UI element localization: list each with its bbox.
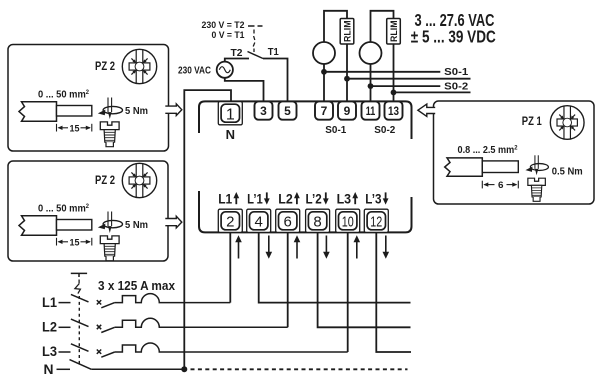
wire N dashed: [191, 368, 408, 370]
cable conductor (lower): [57, 220, 92, 231]
svg-text:L3: L3: [42, 344, 57, 359]
svg-text:5: 5: [284, 104, 291, 118]
svg-text:7: 7: [321, 104, 328, 118]
terminal 5: [279, 101, 297, 119]
wire S0-2 line b: [394, 91, 471, 93]
svg-text:6: 6: [284, 214, 292, 231]
svg-text:± 5 ... 39 VDC: ± 5 ... 39 VDC: [411, 26, 496, 46]
svg-text:N: N: [44, 362, 54, 377]
node S0-1 plus: [321, 69, 327, 75]
svg-text:L’1: L’1: [247, 192, 263, 207]
svg-text:9: 9: [344, 104, 351, 118]
svg-text:15: 15: [70, 237, 81, 248]
svg-text:6: 6: [498, 180, 504, 191]
terminal 13: [385, 101, 403, 119]
arrow up under terminal 6: [294, 235, 301, 258]
svg-text:0.8 ... 2.5 mm2: 0.8 ... 2.5 mm2: [458, 144, 518, 156]
svg-text:PZ 2: PZ 2: [95, 175, 115, 187]
S0 lamp circle 2: [360, 42, 382, 64]
svg-text:3: 3: [260, 104, 267, 118]
wire S0-1 line a: [324, 71, 440, 73]
svg-text:L1: L1: [42, 295, 57, 310]
arrow down under terminal 4: [266, 236, 273, 259]
breaker linkage zigzag: [75, 280, 81, 294]
svg-text:L2: L2: [42, 320, 57, 335]
meter body bottom outline: [199, 191, 412, 232]
switch N: [57, 360, 185, 370]
svg-text:5 Nm: 5 Nm: [125, 219, 148, 231]
wire S0-2 line a: [371, 85, 441, 87]
torque screwdriver 0.5Nm: [525, 155, 548, 175]
terminal 2: [218, 209, 242, 232]
wire RLIM2 to terminal 13: [393, 44, 395, 101]
svg-text:12: 12: [370, 214, 382, 231]
svg-text:0 V = T1: 0 V = T1: [212, 30, 246, 41]
terminal 12: [364, 209, 388, 232]
svg-text:L2: L2: [278, 192, 293, 207]
terminal 7: [315, 101, 333, 119]
wire AC top to T2 contact: [225, 59, 249, 62]
torque screwdriver 5Nm (lower): [98, 212, 123, 234]
arrow from PZ1 box to meter: [418, 104, 435, 116]
node S0-1 minus: [344, 76, 350, 82]
svg-text:RLIM: RLIM: [343, 20, 354, 42]
svg-text:T2: T2: [231, 48, 243, 59]
node S0-2 minus: [391, 90, 397, 96]
wire S0-1 line b: [347, 78, 471, 80]
wire RLIM1 to terminal 9: [346, 44, 348, 101]
svg-text:T1: T1: [268, 47, 279, 58]
screw icon PZ1: [528, 178, 545, 201]
breaker linkage dashed: [78, 296, 80, 364]
svg-text:1: 1: [226, 106, 235, 123]
svg-text:L’2: L’2: [306, 192, 322, 207]
svg-text:PZ 1: PZ 1: [522, 116, 542, 128]
wire loop S0-2: [371, 11, 394, 42]
wire AC bottom to terminal 3: [225, 78, 264, 102]
wire terminal 4 to L1 out: [259, 232, 411, 302]
svg-text:L’3: L’3: [365, 192, 382, 207]
arrow from PZ2 upper box to meter: [165, 104, 182, 116]
svg-text:10: 10: [342, 214, 354, 231]
pozidriv icon PZ1: [550, 106, 584, 140]
wire terminal 2 to L1 bus: [229, 232, 231, 302]
terminal 8: [306, 209, 330, 232]
wire terminal 12 to L3 out: [376, 232, 411, 352]
terminal 6: [276, 209, 300, 232]
svg-text:0 ... 50 mm2: 0 ... 50 mm2: [38, 89, 89, 101]
svg-text:15: 15: [70, 123, 81, 134]
svg-text:8: 8: [313, 214, 321, 231]
screw icon (lower): [100, 236, 119, 261]
svg-text:2: 2: [226, 214, 234, 231]
terminal 11: [362, 101, 380, 119]
cable conductor (upper): [57, 106, 92, 117]
node S0-2 plus: [368, 83, 374, 89]
torque screwdriver 5Nm (upper): [98, 98, 123, 120]
info box PZ2 (upper): [8, 45, 169, 152]
arrow up under terminal 2: [235, 235, 242, 258]
arrow from PZ2 lower box to meter: [165, 216, 182, 228]
terminal 1: [218, 102, 242, 125]
cable insulated PZ1: [445, 158, 483, 176]
svg-text:S0-1: S0-1: [325, 125, 347, 136]
svg-text:L1: L1: [218, 192, 232, 207]
breaker handle T-bar: [71, 273, 87, 277]
meter body top outline: [199, 101, 412, 139]
wire loop S0-1: [324, 11, 347, 42]
svg-text:11: 11: [366, 104, 376, 118]
arrow down under terminal 12: [383, 236, 390, 259]
wire terminal 10 to L3 bus: [347, 232, 349, 352]
info box PZ2 (lower): [8, 161, 168, 261]
selector linkage dashed: [253, 30, 255, 53]
svg-text:S0-2: S0-2: [444, 80, 468, 92]
pozidriv icon PZ2 (lower): [122, 163, 156, 197]
terminal 3: [255, 101, 273, 119]
wire N riser to terminal 1: [184, 90, 231, 369]
wire lamp2 to terminal 11: [370, 64, 372, 101]
fuse switch L2: [59, 318, 288, 332]
selector dashes: [248, 25, 263, 27]
terminal 10: [336, 209, 360, 232]
arrow up under terminal 10: [354, 235, 361, 258]
node N junction: [181, 366, 187, 372]
svg-text:L3: L3: [337, 192, 352, 207]
svg-text:4: 4: [255, 214, 263, 231]
svg-text:0.5 Nm: 0.5 Nm: [552, 166, 583, 178]
cable insulated (upper): [19, 102, 57, 122]
svg-text:N: N: [226, 127, 235, 142]
wire terminal 6 to L2 bus: [287, 232, 289, 327]
svg-text:3 x 125 A max: 3 x 125 A max: [98, 279, 175, 293]
cable insulated (lower): [19, 216, 57, 236]
svg-text:S0-1: S0-1: [444, 66, 468, 78]
svg-text:5 Nm: 5 Nm: [125, 105, 148, 117]
RLIM box 1: [340, 19, 354, 45]
svg-text:S0-2: S0-2: [374, 125, 396, 136]
AC source circle: [217, 62, 233, 78]
terminal 9: [338, 101, 356, 119]
dimension 6: [482, 181, 518, 189]
terminal 4: [247, 209, 271, 232]
svg-text:0 ... 50 mm2: 0 ... 50 mm2: [38, 203, 89, 215]
RLIM box 2: [387, 19, 401, 45]
fuse switch L1: [59, 294, 231, 308]
dimension 15 (upper): [57, 124, 92, 132]
dimension 15 (lower): [57, 238, 92, 246]
fuse switch L3: [59, 343, 348, 357]
wire terminal 8 to L2 out: [318, 232, 411, 327]
pozidriv icon PZ2 (upper): [122, 49, 156, 83]
cable conductor PZ1: [482, 161, 518, 173]
svg-text:13: 13: [388, 104, 399, 118]
svg-text:230 VAC: 230 VAC: [178, 66, 211, 77]
screw icon (upper): [100, 122, 119, 147]
wire T1 to terminal 5: [263, 59, 288, 102]
wire lamp1 to terminal 7: [323, 64, 325, 101]
svg-text:PZ 2: PZ 2: [95, 61, 115, 73]
arrow down under terminal 8: [323, 236, 330, 259]
info box PZ1: [434, 101, 595, 204]
S0 lamp circle 1: [313, 42, 335, 64]
switch blade T2/T1: [248, 52, 264, 59]
svg-text:RLIM: RLIM: [389, 20, 400, 42]
